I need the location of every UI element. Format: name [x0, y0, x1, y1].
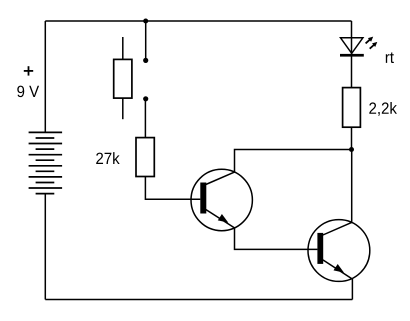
wire: resistor 27k to Q1 base: [145, 177, 200, 200]
wire: junction to switch upper contact: [145, 21, 147, 58]
node A: junction of R 2,2k / Q1 collector / Q2 collector: [349, 147, 354, 152]
switch S1 actuator (pushbutton body): [114, 37, 132, 119]
label: rt: [386, 52, 394, 63]
label: + (battery polarity): [24, 66, 33, 75]
node: top-rail junction to switch branch: [143, 19, 148, 24]
wire: Q1 emitter to Q2 base: [235, 228, 318, 250]
wire: top rail to LED anode: [351, 21, 353, 55]
LED D1 (rt = red): [340, 37, 377, 57]
battery 9V: [29, 132, 63, 193]
switch S1 upper contact: [143, 58, 148, 63]
wire: Q2 emitter to bottom rail: [351, 279, 353, 300]
transistor Q2 (NPN): [308, 220, 370, 282]
wire: LED cathode to resistor 2,2k: [351, 57, 353, 88]
wire: left rail (battery + to top rail): [44, 21, 46, 132]
transistor Q1 (NPN): [191, 169, 252, 230]
wire: Q1 collector to node A: [235, 150, 352, 173]
label: 9 V: [17, 86, 39, 98]
wire: bottom rail: [45, 299, 352, 301]
switch S1 lower contact: [143, 96, 148, 101]
wire: switch lower contact to resistor 27k: [144, 99, 146, 138]
wire: resistor 2,2k to node A: [351, 127, 353, 149]
wire: battery - to bottom rail: [44, 194, 46, 300]
resistor 27k: [136, 138, 154, 177]
wire: top rail: [45, 20, 351, 22]
resistor 2,2k: [343, 88, 361, 128]
wire: node A to Q2 collector: [351, 150, 353, 223]
label: 2,2k: [369, 102, 397, 116]
label: 27k: [96, 152, 119, 164]
